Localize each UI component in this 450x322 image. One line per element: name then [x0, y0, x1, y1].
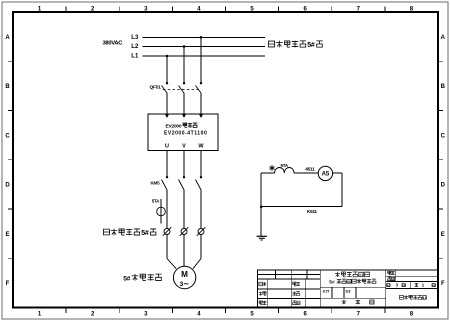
svg-text:D: D — [5, 183, 10, 189]
inverter U1 box EV2000 — [148, 114, 218, 151]
svg-text:E: E — [5, 232, 9, 238]
svg-text:KM5: KM5 — [151, 181, 161, 186]
current transformer 5TA label — [152, 199, 160, 204]
node tap L1 — [166, 55, 169, 58]
wire drop phase 3 — [200, 37, 202, 83]
svg-text:4511: 4511 — [305, 166, 315, 172]
label L1 — [131, 54, 139, 60]
wire drop phase 1 — [166, 56, 168, 83]
CT secondary winding 5TA (humps) — [275, 167, 295, 173]
junction node — [260, 205, 263, 208]
contactor KM5 pole 3 — [196, 176, 203, 191]
wire QF51 pole 1 to inverter — [166, 94, 168, 115]
svg-text:C: C — [441, 133, 446, 139]
wire left vertical of meter loop — [260, 173, 262, 236]
contactor KM5 label — [151, 181, 161, 186]
wire QF51 pole 3 to inverter — [200, 94, 202, 115]
svg-text:5: 5 — [250, 312, 254, 318]
wire KM5 pole 3 down — [200, 191, 202, 229]
svg-text:L3: L3 — [131, 35, 139, 41]
terminal X2 (circle with slash) — [180, 227, 189, 236]
label 5# water pump motor — [123, 274, 161, 283]
wire K511 bottom segment — [261, 206, 342, 208]
wire L3 bus — [142, 36, 265, 38]
svg-text:L1: L1 — [131, 54, 139, 60]
wire inverter output 3 — [200, 151, 202, 178]
label: to original system 5# pump (top right) — [268, 41, 322, 49]
inverter output terminal W — [198, 144, 204, 150]
svg-text:EV2000-4T1100: EV2000-4T1100 — [164, 131, 207, 137]
svg-text:D: D — [441, 183, 446, 189]
wire inverter output 2 — [183, 151, 185, 178]
svg-text:4: 4 — [197, 312, 201, 318]
wire KM5 pole 2 down — [183, 191, 185, 229]
wire QF51 pole 2 to inverter — [183, 94, 185, 115]
inverter output terminal V — [182, 144, 186, 150]
CT secondary label 5TA — [281, 163, 289, 168]
svg-text:9.3: 9.3 — [346, 288, 352, 293]
label L2 — [131, 44, 139, 50]
wire terminal 3 to motor — [200, 235, 202, 259]
svg-text:V: V — [182, 144, 186, 150]
svg-text:380VAC: 380VAC — [103, 40, 124, 46]
motor M 3~ circle — [173, 266, 195, 288]
inverter input arrow pin 2 — [182, 114, 186, 118]
wire terminal 1 to motor — [166, 235, 168, 259]
svg-text:5#: 5# — [329, 280, 335, 286]
svg-text:5#: 5# — [307, 42, 315, 49]
svg-text:A5: A5 — [322, 172, 330, 178]
breaker QF51 pole 1 — [162, 82, 169, 94]
svg-text:E: E — [441, 232, 445, 238]
inverter output terminal U — [165, 144, 169, 150]
svg-text:1: 1 — [422, 283, 425, 288]
ground symbol — [257, 236, 267, 240]
wire label K511 — [307, 209, 318, 215]
node tap L2 — [183, 45, 186, 48]
wire L2 bus — [142, 46, 265, 48]
CT polarity asterisk — [269, 165, 274, 171]
inverter text line 2 model EV2000-4T1100 — [164, 131, 207, 137]
breaker QF51 pole 2 — [179, 82, 186, 94]
svg-text:C: C — [5, 133, 10, 139]
terminal X1 (circle with slash) — [163, 227, 172, 236]
wire meter to right corner — [333, 173, 343, 207]
breaker QF51 interlock dashed line — [163, 89, 199, 91]
svg-text:3: 3 — [144, 312, 148, 318]
svg-text:W: W — [198, 144, 204, 150]
svg-text:M: M — [181, 270, 188, 279]
svg-text:2: 2 — [91, 312, 95, 318]
svg-text:1: 1 — [38, 312, 42, 318]
wire inverter output 1 — [166, 151, 168, 178]
svg-text:6: 6 — [304, 312, 308, 318]
wire label 4511 — [305, 166, 315, 172]
svg-text:5TA: 5TA — [152, 199, 160, 204]
breaker QF51 label — [150, 84, 162, 90]
breaker QF51 pole 3 — [196, 82, 203, 94]
svg-text:F: F — [6, 281, 10, 287]
ammeter A5 — [318, 166, 332, 180]
svg-text:3∼: 3∼ — [180, 281, 190, 288]
inverter input arrow pin 1 — [165, 114, 169, 118]
contactor KM5 pole 2 — [179, 176, 186, 191]
svg-text:L2: L2 — [131, 44, 139, 50]
svg-text:3: 3 — [396, 283, 399, 288]
wire drop phase 2 — [183, 47, 185, 84]
svg-text:5TA: 5TA — [281, 163, 289, 168]
svg-text:A: A — [441, 35, 446, 41]
inverter text line 1 — [166, 123, 198, 129]
svg-text:F: F — [441, 281, 445, 287]
label: to original system 5# pump (left) — [103, 229, 156, 237]
wire 4511 segment — [294, 172, 318, 174]
wire KM5 pole 1 down — [166, 191, 168, 229]
wire L1 bus — [142, 55, 265, 57]
wire terminal 2 to motor — [183, 235, 185, 267]
svg-text:K511: K511 — [307, 209, 318, 215]
node tap L3 — [200, 36, 203, 39]
svg-text:0.77: 0.77 — [323, 288, 331, 293]
svg-text:7: 7 — [357, 312, 361, 318]
label L3 — [131, 35, 139, 41]
wire top left segment — [261, 172, 274, 174]
svg-text:5#: 5# — [141, 230, 149, 237]
svg-text:8: 8 — [410, 312, 414, 318]
svg-text:A: A — [5, 35, 10, 41]
current transformer 5TA primary symbol — [160, 199, 162, 224]
label 380VAC — [103, 40, 124, 46]
svg-text:U: U — [165, 144, 169, 150]
contactor KM5 pole 1 — [162, 176, 169, 191]
terminal X3 (circle with slash) — [197, 227, 206, 236]
svg-text:QF51: QF51 — [150, 84, 162, 90]
svg-text:B: B — [5, 84, 10, 90]
svg-text:B: B — [441, 84, 446, 90]
svg-text:5#: 5# — [123, 276, 130, 283]
inverter input arrow pin 3 — [199, 114, 203, 118]
svg-text:EV2000: EV2000 — [166, 123, 182, 129]
